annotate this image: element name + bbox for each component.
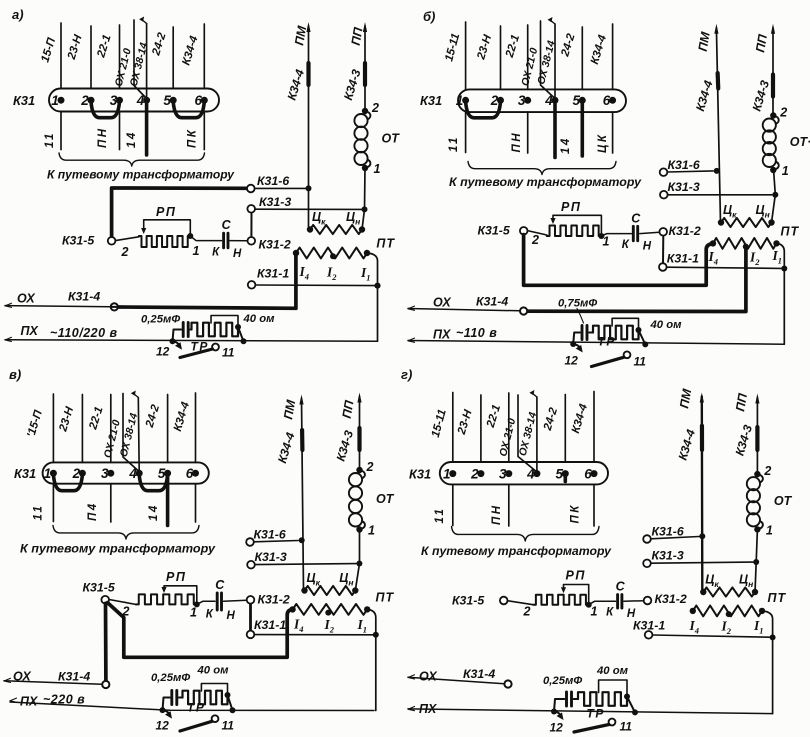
- svg-text:12: 12: [156, 345, 170, 359]
- terminal K31-4 (b): [520, 307, 527, 314]
- junction dot at TR right end (a): [235, 324, 241, 330]
- svg-text:Н: Н: [627, 608, 636, 620]
- terminal К31-5 (g): [508, 601, 534, 605]
- svg-text:ПК: ПК: [570, 503, 582, 523]
- slider tap over TR (g): [599, 680, 627, 696]
- terminal К31-3 (b): [668, 194, 772, 196]
- switch blade between 12 and 11 (a): [180, 349, 213, 358]
- terminal К31-1 (a): [255, 284, 374, 287]
- wire OX (b): [408, 306, 415, 310]
- svg-text:ПТ: ПТ: [781, 225, 800, 239]
- svg-text:б): б): [423, 9, 435, 24]
- wire 22-1 (a): [119, 25, 121, 89]
- svg-text:Н: Н: [227, 610, 236, 622]
- svg-text:К31: К31: [13, 93, 35, 108]
- terminal К31-2 (v): [249, 604, 252, 631]
- svg-text:12: 12: [156, 719, 170, 733]
- junction dot at TR right end (b): [636, 327, 642, 333]
- switch blade between 12 and 11 (v): [180, 721, 212, 731]
- wire ОХ 38-14 (b): [554, 24, 556, 98]
- svg-text:11: 11: [448, 135, 460, 152]
- svg-text:С: С: [631, 211, 641, 225]
- terminal К31-6 (g): [651, 537, 699, 539]
- wire stub below terminal 6 (v): [195, 484, 197, 522]
- svg-text:ОХ: ОХ: [17, 292, 35, 306]
- svg-text:11: 11: [222, 346, 235, 360]
- terminal К31-1 (b): [667, 267, 782, 268]
- thick wire K31-5 down to K31-4 (v): [104, 603, 108, 680]
- tap I2 dot on PT (g): [726, 611, 732, 617]
- svg-text:~110/220 в: ~110/220 в: [50, 326, 118, 340]
- wire PP with arrow (g): [756, 398, 758, 475]
- terminal К31-2 (g): [644, 597, 652, 605]
- svg-text:С: С: [616, 580, 626, 594]
- resistor PT (v): [289, 606, 295, 612]
- wire П4 below terminal 3 (v): [110, 484, 112, 522]
- svg-text:К путевому трансформатору: К путевому трансформатору: [449, 175, 642, 189]
- jumper strap between terminals 5 and 6 (a): [173, 102, 204, 118]
- wire from PT right end down (b): [777, 243, 785, 344]
- wire from PT right end down (g): [762, 611, 773, 714]
- svg-text:ПН: ПН: [511, 131, 523, 153]
- wire PX (b): [408, 338, 415, 342]
- svg-text:К31-2: К31-2: [259, 238, 291, 252]
- resistor RP comb (a): [139, 236, 190, 247]
- wire ПК below terminal 6 (a): [203, 112, 205, 150]
- resistor TR winding (g): [578, 692, 627, 706]
- junction dot on PX right of TR branch (b): [642, 341, 648, 347]
- terminal K31-4 (g): [504, 680, 511, 687]
- contact 11 (v): [212, 715, 219, 722]
- wire PP with arrow (a): [364, 26, 366, 111]
- wire 15-11 (b): [465, 22, 467, 89]
- svg-text:11: 11: [33, 504, 45, 521]
- resistor Tsk-Tsn (g): [700, 589, 706, 595]
- wire ЦК below terminal 6 (b): [612, 112, 614, 153]
- wire ПК below terminal 6 (g): [593, 484, 595, 526]
- wire PM with arrow (a): [308, 26, 310, 230]
- wire 23-Н (b): [500, 26, 502, 89]
- svg-text:ПХ: ПХ: [419, 702, 437, 716]
- resistor Tsk-Tsn (b): [718, 219, 724, 225]
- svg-text:К31-2: К31-2: [669, 224, 701, 238]
- resistor PT (a): [293, 250, 299, 256]
- svg-text:1: 1: [766, 523, 773, 537]
- svg-text:ПТ: ПТ: [376, 591, 395, 605]
- terminal block K31 (b): [458, 89, 626, 112]
- wire 22-1 (v): [110, 395, 112, 463]
- slider tap over TR (v): [201, 684, 227, 695]
- svg-text:11: 11: [44, 131, 56, 148]
- terminal К31-1 (g): [652, 635, 769, 637]
- svg-text:ПХ: ПХ: [20, 695, 38, 709]
- svg-text:ПТ: ПТ: [768, 591, 787, 605]
- wire 11 below terminal 1 (g): [452, 484, 454, 525]
- svg-text:П4: П4: [87, 501, 99, 521]
- svg-text:а): а): [12, 7, 24, 22]
- terminal К31-5 (a): [115, 237, 138, 241]
- tap I2 dot on PT (b): [743, 244, 749, 250]
- capacitor 0,25мФ (a): [173, 330, 182, 342]
- svg-text:0,25мФ: 0,25мФ: [151, 672, 190, 684]
- wire PP with arrow (v): [359, 397, 361, 471]
- svg-text:2: 2: [531, 233, 539, 247]
- wire '15-П (v): [52, 394, 54, 462]
- wire 15-11 (g): [452, 393, 454, 463]
- terminal K31-4 (a): [111, 303, 118, 310]
- thick wire OX to PT left end (a): [118, 253, 296, 308]
- svg-text:К: К: [622, 239, 630, 251]
- thick wire OX to tap I2 of PT (b): [527, 247, 746, 312]
- wire ОХ 38-14 (a): [146, 24, 148, 99]
- wire К34-4 (b): [612, 24, 614, 89]
- capacitor 0,75мФ (b): [573, 333, 580, 345]
- svg-text:ТР: ТР: [187, 701, 205, 715]
- wire PX (v): [10, 698, 17, 702]
- svg-text:К31-4: К31-4: [463, 667, 495, 681]
- slider tap over TR (a): [211, 316, 238, 327]
- svg-text:ОТ: ОТ: [774, 494, 793, 508]
- jumper strap between terminals 1 and 2 (b): [466, 102, 501, 118]
- wire 23-Н (g): [480, 395, 482, 462]
- wire 24-2 (b): [581, 27, 583, 89]
- wire 23-Н (v): [81, 395, 83, 463]
- svg-text:К: К: [212, 246, 220, 258]
- capacitor C (v): [197, 601, 215, 604]
- adjustment strap of RP (b): [553, 215, 601, 235]
- wire PM with arrow (b): [716, 28, 720, 222]
- svg-text:14: 14: [560, 136, 572, 154]
- svg-text:ОТ: ОТ: [382, 132, 401, 146]
- wire PP with arrow (b): [772, 28, 774, 116]
- svg-text:К31-3: К31-3: [255, 550, 287, 564]
- wire ОХ 38-14 (g): [536, 397, 538, 472]
- junction of K31-1 wire with PT right branch (a): [375, 283, 381, 289]
- wire 22-1 (g): [508, 393, 510, 462]
- terminal К31-2 (b): [662, 236, 664, 264]
- svg-text:ЦК: ЦК: [597, 133, 609, 153]
- resistor RP comb (b): [547, 226, 602, 237]
- svg-text:ОХ: ОХ: [419, 670, 437, 684]
- svg-text:К31-5: К31-5: [83, 581, 115, 595]
- svg-text:К путевому трансформатору: К путевому трансформатору: [20, 542, 216, 556]
- svg-text:40 ом: 40 ом: [650, 319, 683, 331]
- thick wire K31-5 to PT left end (v): [108, 603, 293, 658]
- svg-text:в): в): [9, 367, 21, 382]
- wire PP below OT (g): [755, 529, 757, 592]
- svg-text:К31-6: К31-6: [254, 528, 286, 542]
- svg-text:12: 12: [565, 354, 579, 368]
- svg-text:2: 2: [371, 101, 379, 115]
- contact 12 (g): [554, 712, 561, 716]
- terminal К31-6 (a): [112, 188, 247, 237]
- svg-text:К путевому трансформатору: К путевому трансформатору: [47, 168, 235, 182]
- switch blade between 12 and 11 (b): [592, 357, 625, 366]
- svg-text:К31-5: К31-5: [452, 594, 484, 608]
- resistor Tsk-Tsn (a): [307, 226, 313, 232]
- wire 22-1 (b): [527, 25, 529, 89]
- terminal К31-3 (a): [255, 208, 362, 210]
- wire ПН below terminal 3 (a): [119, 112, 121, 150]
- svg-text:ОХ: ОХ: [433, 296, 451, 310]
- wire К34-4 (v): [195, 393, 197, 462]
- junction dot on PX left of TR branch (g): [551, 709, 557, 715]
- resistor PT (b): [710, 240, 716, 246]
- svg-text:1: 1: [374, 162, 381, 176]
- resistor RP comb (g): [533, 595, 589, 605]
- wire OX (v): [4, 678, 11, 682]
- wire 14 below terminal 5 (v): [166, 475, 170, 525]
- svg-text:1: 1: [368, 524, 375, 538]
- wire OX (g): [408, 675, 415, 679]
- svg-text:14: 14: [126, 130, 138, 148]
- svg-text:~110 в: ~110 в: [456, 326, 497, 340]
- wire from PT right end down (a): [367, 253, 378, 341]
- svg-text:К31-3: К31-3: [668, 180, 700, 194]
- svg-text:К31-4: К31-4: [476, 295, 508, 309]
- svg-text:1: 1: [591, 605, 598, 619]
- contact 11 (b): [624, 351, 631, 358]
- terminal К31-5 (b): [528, 231, 547, 235]
- svg-text:РП: РП: [561, 200, 581, 214]
- svg-text:ПТ: ПТ: [376, 237, 395, 251]
- thick wire K31-5 to PT left end (b): [524, 235, 713, 286]
- jumper strap between terminals 2 and 3 (a): [91, 102, 120, 118]
- svg-text:11: 11: [222, 719, 235, 733]
- capacitor C (a): [190, 236, 221, 241]
- junction dot on PX right of TR branch (g): [632, 709, 638, 715]
- inductor OT coil (v): [356, 467, 362, 473]
- svg-text:К31-4: К31-4: [58, 670, 90, 684]
- svg-text:К путевому трансформатору: К путевому трансформатору: [421, 544, 612, 558]
- svg-text:С: С: [222, 218, 232, 232]
- capacitor C (b): [601, 234, 631, 236]
- terminal К31-6 (v): [254, 541, 298, 542]
- contact 12 (a): [173, 341, 180, 345]
- svg-text:12: 12: [550, 721, 564, 735]
- wire TR right end to PX (v): [228, 695, 233, 710]
- wire 24-2 (v): [167, 395, 169, 463]
- svg-text:1: 1: [193, 244, 200, 258]
- svg-text:1: 1: [782, 164, 789, 178]
- terminal К31-3 (g): [651, 562, 753, 563]
- svg-text:2: 2: [763, 464, 771, 478]
- svg-text:С: С: [215, 578, 225, 592]
- wire 11 below terminal 1 (v): [52, 484, 54, 522]
- svg-text:ОТ·: ОТ·: [790, 135, 810, 149]
- capacitor 0,25мФ (g): [554, 699, 565, 712]
- svg-text:г): г): [401, 367, 412, 382]
- adjustment strap of RP (a): [144, 220, 191, 235]
- svg-text:1: 1: [603, 235, 610, 249]
- svg-text:К31-6: К31-6: [668, 158, 700, 172]
- resistor TR winding (v): [183, 691, 228, 705]
- svg-text:К31-5: К31-5: [62, 234, 94, 248]
- resistor TR winding (b): [593, 326, 639, 340]
- wire 14 below terminal 4 (a): [145, 102, 149, 155]
- wire 15-П (a): [60, 23, 62, 89]
- junction dot on PX left of TR branch (a): [170, 338, 176, 344]
- wire PP below OT (b): [772, 170, 776, 223]
- resistor TR winding (a): [192, 323, 239, 337]
- svg-text:11: 11: [620, 720, 633, 734]
- terminal block K31 (a): [49, 89, 219, 112]
- wire PX (a): [5, 337, 12, 341]
- svg-text:К31: К31: [409, 467, 431, 482]
- svg-text:ПН: ПН: [491, 503, 503, 525]
- adjustment strap of RP (v): [164, 586, 197, 604]
- svg-text:К31-3: К31-3: [652, 549, 684, 563]
- terminal К31-6 (b): [667, 171, 713, 172]
- contact 12 (v): [163, 710, 170, 714]
- wire 23-Н (a): [90, 26, 92, 89]
- svg-text:ОХ: ОХ: [13, 670, 31, 684]
- wire OX (a): [5, 303, 12, 307]
- wire PM with arrow (v): [302, 399, 304, 591]
- svg-text:0,25мФ: 0,25мФ: [543, 675, 582, 687]
- wire ОХ 38-14 (v): [137, 398, 140, 472]
- resistor PT (g): [690, 608, 696, 614]
- wire К34-4 (a): [203, 24, 205, 89]
- contact 11 (g): [609, 719, 616, 726]
- switch blade between 12 and 11 (g): [574, 725, 609, 733]
- wire 11 below terminal 1 (b): [465, 112, 467, 152]
- svg-text:ТР: ТР: [587, 707, 605, 721]
- svg-text:К31-2: К31-2: [258, 593, 290, 607]
- junction dot on PX right of TR branch (v): [230, 707, 236, 713]
- svg-text:ТР: ТР: [598, 335, 616, 349]
- wire PX (g): [408, 707, 415, 711]
- svg-text:К31-3: К31-3: [259, 195, 291, 209]
- terminal K31-4 (v): [102, 681, 109, 688]
- svg-text:К31-4: К31-4: [68, 290, 100, 304]
- junction dot at TR right end (g): [624, 694, 630, 700]
- terminal К31-3 (v): [255, 564, 356, 565]
- adjustment strap of RP (g): [564, 585, 589, 604]
- wire TR right end to PX (g): [627, 697, 635, 713]
- inductor OT coil (b): [770, 112, 776, 118]
- wire TR right end to PX (a): [238, 327, 244, 341]
- svg-text:РП: РП: [156, 205, 176, 219]
- wire stub below terminal 5 (b): [580, 102, 584, 156]
- svg-text:К31-6: К31-6: [257, 174, 289, 188]
- jumper strap between terminals 4 and 5 (v): [139, 475, 167, 491]
- wire from PT right end down (v): [367, 609, 376, 710]
- junction dot on PX left of TR branch (b): [570, 341, 576, 347]
- svg-text:2: 2: [366, 460, 374, 474]
- wire PP below OT (v): [355, 530, 359, 591]
- svg-text:ПН: ПН: [97, 126, 109, 148]
- wire ОХ 21-0 (a): [134, 20, 147, 99]
- wire ПН below terminal 3 (g): [508, 484, 510, 526]
- terminal К31-2 (a): [248, 237, 256, 245]
- tap I2 dot on PT (a): [330, 253, 336, 259]
- terminal block K31 (g): [440, 462, 608, 484]
- brace to track transformer (v): [53, 526, 199, 540]
- junction dot at TR right end (v): [225, 692, 231, 698]
- wire PM with arrow (g): [701, 397, 704, 592]
- svg-text:ПХ: ПХ: [433, 328, 451, 342]
- capacitor 0,25мФ (v): [163, 698, 170, 711]
- svg-text:К31-6: К31-6: [652, 525, 684, 539]
- svg-text:К31-2: К31-2: [655, 592, 687, 606]
- svg-text:Н: Н: [233, 248, 242, 260]
- svg-text:ПК: ПК: [187, 128, 199, 148]
- svg-text:ПХ: ПХ: [21, 324, 39, 338]
- svg-text:0,25мФ: 0,25мФ: [141, 314, 180, 326]
- resistor RP comb (v): [136, 594, 197, 604]
- wire 14 below terminal 4 (b): [553, 102, 557, 157]
- wire 24-2 (g): [564, 395, 566, 463]
- svg-text:К31-1: К31-1: [633, 619, 665, 633]
- svg-text:~220 в: ~220 в: [43, 693, 85, 707]
- svg-text:0,75мФ: 0,75мФ: [558, 298, 597, 310]
- wire ОХ 21-0 (g): [518, 395, 537, 472]
- svg-text:К31-1: К31-1: [667, 252, 699, 266]
- wire 24-2 (a): [172, 27, 174, 89]
- wire TR right end to PX (b): [639, 330, 646, 344]
- svg-text:40 ом: 40 ом: [596, 665, 629, 677]
- svg-text:К: К: [206, 609, 214, 621]
- svg-text:2: 2: [523, 605, 531, 619]
- wire stub below terminal 5 (g): [563, 474, 567, 482]
- svg-text:РП: РП: [166, 570, 186, 584]
- svg-text:1: 1: [190, 606, 197, 620]
- wire ОХ 21-0 (v): [123, 394, 139, 472]
- svg-text:40 ом: 40 ом: [197, 665, 230, 677]
- brace to track transformer (a): [59, 153, 205, 166]
- slider tap over TR (b): [612, 318, 638, 329]
- svg-text:К31: К31: [420, 93, 442, 108]
- svg-text:2: 2: [779, 106, 787, 120]
- brace to track transformer (g): [452, 527, 600, 542]
- svg-text:2: 2: [121, 245, 129, 259]
- inductor OT coil (a): [362, 108, 368, 114]
- svg-text:К31-1: К31-1: [257, 267, 289, 281]
- wire 11 below terminal 1 (a): [60, 112, 62, 150]
- svg-text:14: 14: [148, 503, 160, 521]
- capacitor C (g): [589, 601, 616, 604]
- svg-text:Н: Н: [643, 241, 652, 253]
- wire К34-4 (g): [593, 392, 595, 463]
- svg-text:40 ом: 40 ом: [243, 313, 276, 325]
- svg-text:11: 11: [434, 507, 446, 524]
- svg-text:К31-1: К31-1: [254, 618, 286, 632]
- junction dot on PX left of TR branch (v): [160, 707, 166, 713]
- svg-text:11: 11: [634, 355, 647, 369]
- tap I2 dot on PT (v): [325, 610, 331, 616]
- resistor Tsk-Tsn (v): [301, 587, 307, 593]
- jumper strap between terminals 1 and 2 (v): [53, 475, 82, 491]
- contact 12 (b): [573, 344, 580, 348]
- svg-text:РП: РП: [566, 569, 586, 583]
- svg-text:К31-5: К31-5: [478, 224, 510, 238]
- inductor OT coil (g): [754, 471, 760, 477]
- svg-text:К31: К31: [14, 466, 36, 481]
- terminal block K31 (v): [43, 462, 209, 483]
- contact 11 (a): [212, 344, 219, 351]
- brace to track transformer (b): [468, 162, 616, 175]
- wire ПН below terminal 3 (b): [527, 112, 529, 153]
- wire ОХ 21-0 (b): [541, 21, 556, 99]
- terminal К31-1 (v): [254, 634, 372, 636]
- svg-text:К: К: [606, 607, 614, 619]
- terminal К31-5 (v): [109, 600, 136, 605]
- svg-text:ОТ: ОТ: [376, 492, 395, 506]
- junction dot on PX right of TR branch (a): [241, 338, 247, 344]
- wire PP below OT (a): [362, 168, 365, 230]
